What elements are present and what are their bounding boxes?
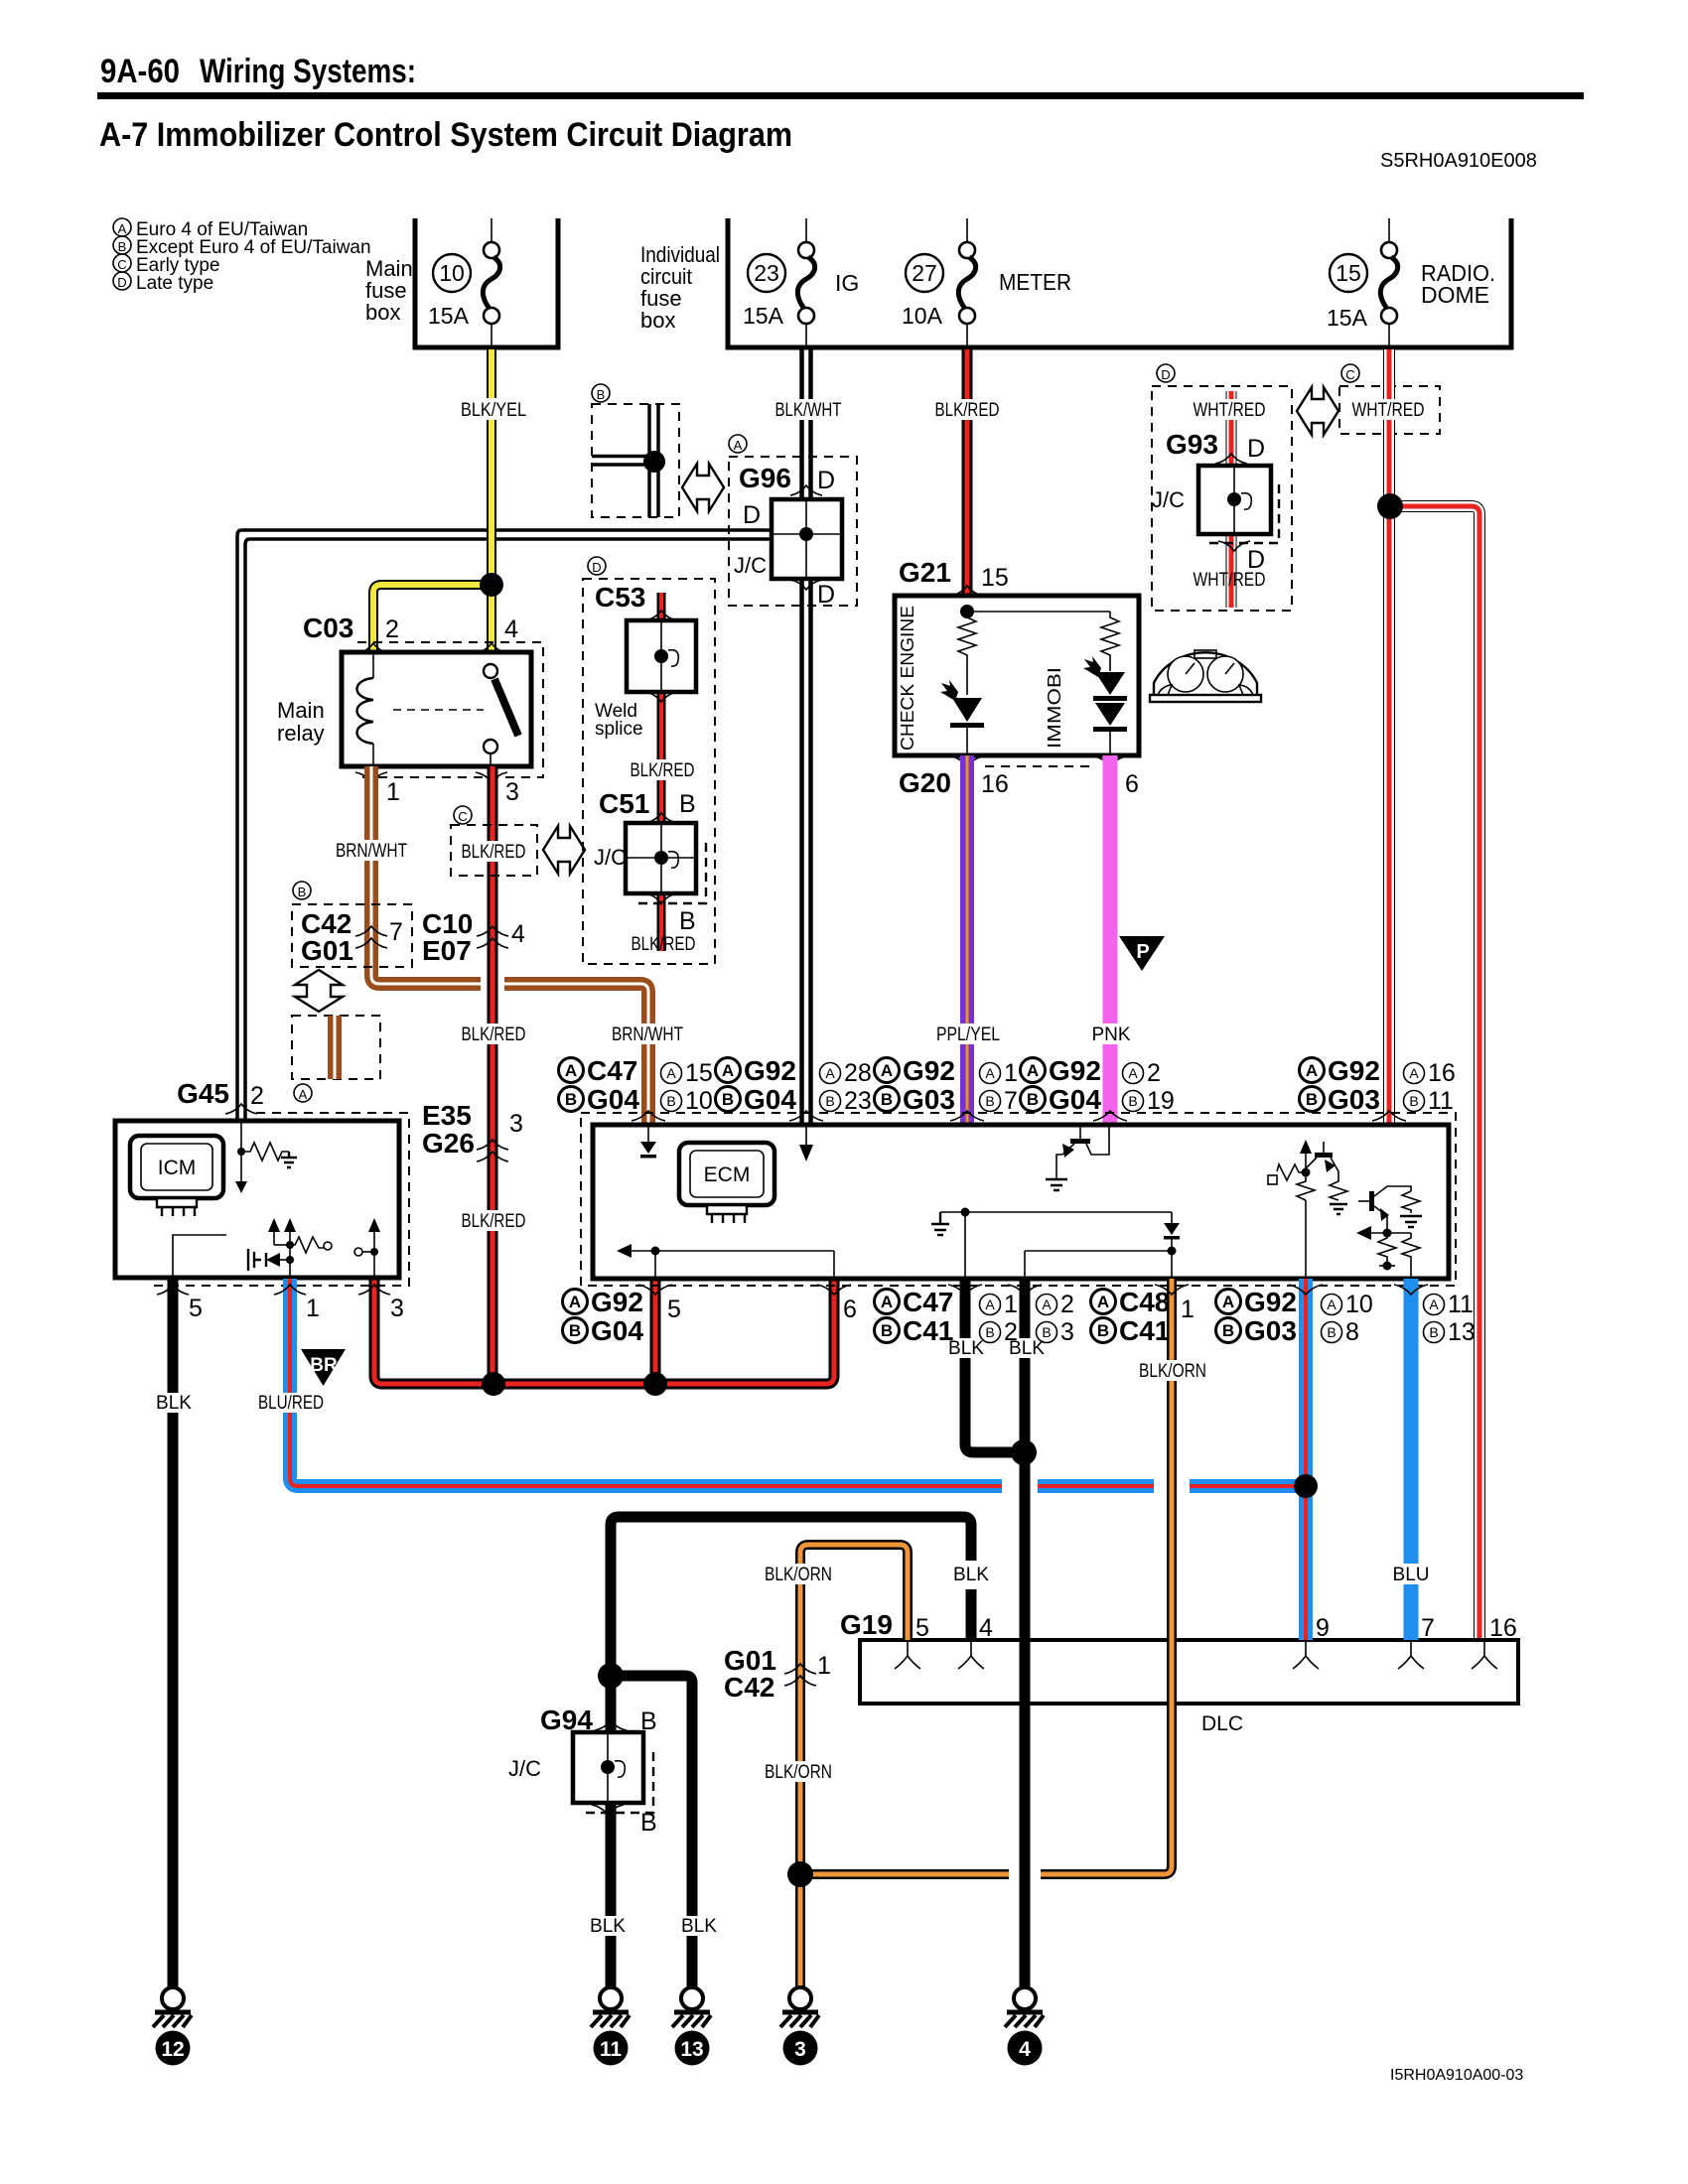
ICM pin5 internal line xyxy=(173,1235,226,1278)
svg-text:Late type: Late type xyxy=(136,273,213,294)
svg-text:B: B xyxy=(881,1090,893,1109)
svg-text:BLK: BLK xyxy=(681,1916,717,1937)
svg-text:G03: G03 xyxy=(1244,1315,1297,1346)
connector G94 upper mark xyxy=(595,1720,627,1730)
wire BLU/RED segment 3 xyxy=(1190,1479,1306,1493)
label BLK/ORN lower xyxy=(760,1761,837,1783)
wire BLK branch to ground 13 xyxy=(611,1676,692,1987)
svg-text:WHT/RED: WHT/RED xyxy=(1194,400,1266,421)
wire BLU/RED ICM pin1 to junction xyxy=(290,1279,1002,1486)
interchange arrow C at C51 xyxy=(543,826,585,874)
svg-text:G93: G93 xyxy=(1166,429,1218,460)
svg-text:B: B xyxy=(985,1093,994,1109)
svg-text:10: 10 xyxy=(439,260,465,286)
svg-text:C03: C03 xyxy=(303,613,353,643)
svg-text:2: 2 xyxy=(1060,1291,1074,1318)
svg-text:1: 1 xyxy=(1181,1296,1195,1323)
svg-text:C41: C41 xyxy=(1119,1315,1170,1346)
svg-text:16: 16 xyxy=(981,770,1009,798)
ECM transistor at PNK pin xyxy=(1046,1125,1109,1190)
label BLK/YEL xyxy=(457,398,530,421)
wire BLK ECM A2/B3 to ground 4 xyxy=(1020,1279,1031,1987)
svg-text:13: 13 xyxy=(680,2038,703,2061)
wire WHT/RED branch to DLC 16 xyxy=(1390,506,1479,1640)
junction BLK/ORN xyxy=(787,1861,813,1887)
ECM pin A2/B19 mark xyxy=(1093,1111,1127,1121)
variant D WHT/RED stub xyxy=(1226,391,1237,608)
svg-text:C51: C51 xyxy=(599,788,649,819)
svg-text:PNK: PNK xyxy=(1091,1024,1130,1045)
svg-text:11: 11 xyxy=(1428,1087,1454,1115)
svg-text:5: 5 xyxy=(667,1296,681,1323)
svg-text:G92: G92 xyxy=(1328,1055,1380,1086)
svg-text:8: 8 xyxy=(1345,1318,1359,1346)
svg-text:BLK/RED: BLK/RED xyxy=(462,842,526,863)
svg-text:3: 3 xyxy=(509,1110,523,1138)
svg-text:B: B xyxy=(1097,1321,1109,1340)
main relay box xyxy=(342,652,531,766)
svg-text:A: A xyxy=(1128,1065,1138,1081)
ECM pin 5 mark xyxy=(638,1285,672,1295)
svg-text:G04: G04 xyxy=(744,1084,796,1115)
note B circle at G96 xyxy=(592,384,610,402)
svg-text:A: A xyxy=(985,1297,995,1312)
relay pin1 mark xyxy=(355,772,387,782)
ECM pin A1/B2 connector label C47/C41 xyxy=(875,1287,1018,1346)
svg-text:relay: relay xyxy=(277,721,325,746)
svg-text:4: 4 xyxy=(511,920,525,948)
resistor check engine xyxy=(958,612,976,695)
svg-text:D: D xyxy=(117,275,126,290)
svg-text:G04: G04 xyxy=(587,1084,639,1115)
svg-text:A: A xyxy=(985,1065,995,1081)
connector C51 upper mark xyxy=(645,813,677,823)
DLC pin7 terminal xyxy=(1398,1642,1424,1669)
note D circle at G93 xyxy=(1157,364,1175,382)
ICM pin3 internal circuit xyxy=(354,1218,380,1278)
ECM ground line at pin A1/B2 xyxy=(931,1208,1172,1280)
label BLK/RED meter xyxy=(929,399,1005,421)
ECM pin A2/B3 labels xyxy=(1037,1291,1074,1346)
variant B double wire stub xyxy=(649,404,658,517)
note B circle at C42 xyxy=(293,882,311,899)
junction connector G96 J/C box xyxy=(772,499,842,579)
svg-text:IMMOBI: IMMOBI xyxy=(1045,667,1064,749)
ECM pin A2/B19 connector label G92/G04 xyxy=(1021,1055,1175,1115)
svg-text:9: 9 xyxy=(1316,1614,1330,1642)
variant A BRN/WHT stub xyxy=(328,1016,342,1079)
svg-text:C48: C48 xyxy=(1119,1287,1170,1317)
svg-text:1: 1 xyxy=(306,1295,320,1322)
svg-text:B: B xyxy=(666,1093,675,1109)
wire BLK DLC4 stub xyxy=(966,1589,977,1640)
svg-text:BLK: BLK xyxy=(948,1338,984,1359)
wire BLK ICM pin5 to ground 12 xyxy=(168,1279,179,1987)
svg-text:G04: G04 xyxy=(1049,1084,1101,1115)
fuse F27 10A METER xyxy=(902,218,1071,347)
svg-text:A: A xyxy=(1409,1065,1419,1081)
connector G96 lower mark xyxy=(790,580,822,590)
label BRN/WHT upper xyxy=(334,840,410,862)
svg-text:A: A xyxy=(825,1065,835,1081)
svg-text:A: A xyxy=(565,1061,577,1080)
svg-text:BRN/WHT: BRN/WHT xyxy=(336,841,407,862)
ECM transistor 1 at pin A10/B8 xyxy=(1268,1140,1347,1279)
ICM dashed outline xyxy=(151,1113,409,1286)
legend note D xyxy=(113,272,213,294)
svg-text:A: A xyxy=(1042,1297,1052,1312)
svg-text:G21: G21 xyxy=(899,557,951,588)
svg-text:B: B xyxy=(640,1809,657,1837)
wire BLK/RED bus ICM pin3 to ECM pin6 xyxy=(374,1279,834,1384)
svg-text:16: 16 xyxy=(1428,1059,1456,1087)
svg-text:28: 28 xyxy=(844,1059,872,1087)
ECM pin A16/B11 mark xyxy=(1372,1111,1406,1121)
svg-text:C41: C41 xyxy=(903,1315,953,1346)
svg-text:7: 7 xyxy=(1421,1614,1435,1642)
svg-text:B: B xyxy=(597,387,606,402)
svg-text:G03: G03 xyxy=(1328,1084,1380,1115)
ECM pin A28/B23 mark xyxy=(789,1111,823,1121)
ICM pin2 internal resistor to ground xyxy=(235,1121,297,1193)
svg-text:BLK: BLK xyxy=(590,1916,626,1937)
svg-text:BLK/ORN: BLK/ORN xyxy=(765,1565,832,1585)
ICM pin3 mark xyxy=(358,1285,390,1295)
svg-text:15A: 15A xyxy=(428,303,470,329)
svg-text:D: D xyxy=(1247,435,1265,463)
legend note C xyxy=(113,254,219,276)
wire BLK/YEL fuse10 to relay pin4 xyxy=(487,349,496,652)
svg-text:J/C: J/C xyxy=(734,553,767,578)
note C circle at WHT/RED xyxy=(1341,364,1359,382)
svg-text:Main: Main xyxy=(277,698,325,723)
svg-text:IG: IG xyxy=(835,270,859,296)
relay pin3 mark xyxy=(476,772,507,782)
label BLK pin A2/B3 xyxy=(1008,1338,1046,1359)
svg-text:splice: splice xyxy=(595,719,643,740)
svg-text:D: D xyxy=(1161,367,1170,382)
connector E35/G26 marks xyxy=(477,1140,508,1161)
note A circle at G96 xyxy=(729,435,747,453)
svg-text:4: 4 xyxy=(979,1614,993,1642)
svg-text:10: 10 xyxy=(685,1087,713,1115)
svg-text:23: 23 xyxy=(754,260,779,286)
svg-text:ECM: ECM xyxy=(704,1163,751,1186)
svg-text:C: C xyxy=(458,809,467,824)
ECM pin 1 connector label C48/C41 xyxy=(1091,1287,1195,1346)
combination meter box xyxy=(895,596,1139,755)
DLC pin16 terminal xyxy=(1472,1642,1497,1669)
svg-text:12: 12 xyxy=(161,2038,184,2061)
svg-text:11: 11 xyxy=(600,2038,623,2061)
ICM pin1 mark xyxy=(274,1285,306,1295)
svg-text:3: 3 xyxy=(390,1295,404,1322)
svg-text:A: A xyxy=(722,1061,734,1080)
ECM dashed outline xyxy=(581,1113,1456,1286)
ECM pin A1/B2 mark xyxy=(948,1285,982,1295)
svg-text:9A-60: 9A-60 xyxy=(100,53,180,90)
ICM pin1 internal circuit xyxy=(248,1218,332,1278)
connector C53 mark xyxy=(645,611,677,620)
svg-text:G96: G96 xyxy=(739,463,791,493)
interchange arrow at G96 xyxy=(682,464,724,511)
wire BLK/RED weld splice stub xyxy=(657,593,666,951)
ground 13 xyxy=(672,1987,711,2066)
svg-text:B: B xyxy=(1042,1324,1051,1340)
label BRN/WHT lower xyxy=(610,1024,686,1045)
svg-text:S5RH0A910E008: S5RH0A910E008 xyxy=(1380,150,1537,172)
svg-text:23: 23 xyxy=(844,1087,872,1115)
label BLK ground13 xyxy=(680,1916,718,1937)
svg-text:DLC: DLC xyxy=(1201,1712,1243,1735)
ECM pin A16/B11 connector label G92/G03 xyxy=(1300,1055,1456,1115)
ECM diode at pin A15/B10 xyxy=(640,1125,656,1159)
ECM pin A15/B10 connector label C47/G04 xyxy=(559,1055,713,1115)
ECM diode at pin BLK/ORN xyxy=(1025,1212,1180,1279)
DLC pin9 terminal xyxy=(1293,1642,1319,1669)
svg-text:16: 16 xyxy=(1489,1614,1517,1642)
ICM icon xyxy=(130,1136,223,1216)
ground 11 xyxy=(591,1987,630,2066)
wire BLU/RED segment 2 xyxy=(1038,1479,1154,1493)
svg-text:1: 1 xyxy=(817,1652,831,1680)
svg-text:3: 3 xyxy=(794,2038,806,2061)
resistor immobi xyxy=(1101,612,1119,671)
wire WHT/RED fuse15 to ECM A16/B11 xyxy=(1383,349,1395,1125)
ECM pin A1/B7 mark xyxy=(950,1111,984,1121)
svg-text:B: B xyxy=(679,907,696,935)
junction BLK/RED bus at ECM pin5 xyxy=(643,1372,667,1396)
label PNK xyxy=(1089,1024,1133,1045)
svg-text:C47: C47 xyxy=(587,1055,637,1086)
connector C51 lower mark xyxy=(645,893,677,903)
svg-text:BLK/RED: BLK/RED xyxy=(631,760,695,781)
svg-text:D: D xyxy=(817,467,835,494)
variant C BLK/RED dashed box xyxy=(451,825,537,876)
variant A dashed box xyxy=(292,1016,380,1079)
svg-text:A: A xyxy=(118,221,127,236)
svg-text:G04: G04 xyxy=(591,1315,643,1346)
svg-text:5: 5 xyxy=(189,1295,203,1322)
svg-text:15A: 15A xyxy=(743,303,784,329)
wire BLU ECM A11/B13 to DLC 7 xyxy=(1404,1279,1419,1640)
variant C dashed box WHT/RED xyxy=(1339,386,1440,434)
ECM icon xyxy=(679,1143,774,1223)
svg-text:BRN/WHT: BRN/WHT xyxy=(612,1024,683,1045)
main fuse box xyxy=(415,218,558,347)
label BLK ground11 xyxy=(589,1916,627,1937)
svg-text:BLU/RED: BLU/RED xyxy=(258,1393,324,1414)
svg-text:G19: G19 xyxy=(840,1609,893,1640)
junction connector C51 J/C box xyxy=(626,823,706,903)
DLC box xyxy=(860,1640,1518,1704)
note A circle below xyxy=(294,1084,312,1102)
connector C42/G01 marks xyxy=(355,926,387,948)
header rule xyxy=(97,92,1584,99)
svg-text:G92: G92 xyxy=(1244,1287,1297,1317)
wire BLK/ORN ECM pin1 to junction xyxy=(1041,1279,1172,1874)
connector G93 upper mark xyxy=(1215,454,1247,464)
ECM box xyxy=(593,1125,1449,1279)
svg-text:6: 6 xyxy=(1125,770,1139,798)
svg-text:BLK/ORN: BLK/ORN xyxy=(1139,1361,1206,1382)
wire BRN/WHT relay pin1 down xyxy=(371,766,481,984)
ECM pin 1 mark xyxy=(1155,1285,1189,1295)
label BLK/ORN upper xyxy=(760,1564,837,1585)
svg-text:BLK/YEL: BLK/YEL xyxy=(461,400,526,421)
svg-text:A: A xyxy=(1306,1061,1318,1080)
connector C10/E07 marks xyxy=(477,926,508,948)
junction WHT/RED xyxy=(1377,493,1403,519)
svg-text:A: A xyxy=(299,1087,308,1102)
wire BLK bridge to grounds xyxy=(611,1517,971,1987)
fuse F15 15A RADIO DOME xyxy=(1327,218,1495,347)
wire BLK/ORN G19-5 to ground 3 xyxy=(800,1545,908,1987)
main relay dashed outline xyxy=(357,642,543,777)
label BLK/RED between C53 C51 xyxy=(625,759,700,781)
svg-text:A: A xyxy=(881,1061,893,1080)
variant A dashed box G96 xyxy=(729,457,857,606)
svg-text:G92: G92 xyxy=(903,1055,955,1086)
svg-text:C47: C47 xyxy=(903,1287,953,1317)
label WHT/RED variant C xyxy=(1348,399,1428,421)
svg-text:15: 15 xyxy=(685,1059,713,1087)
svg-text:WHT/RED: WHT/RED xyxy=(1194,570,1266,591)
wire BLK ECM A1/B2 elbow xyxy=(965,1279,1024,1452)
note C circle xyxy=(454,806,472,824)
label WHT/RED G93 top xyxy=(1190,399,1269,421)
LED check engine xyxy=(940,680,984,755)
svg-text:BLK/WHT: BLK/WHT xyxy=(775,400,842,421)
BR marker triangle xyxy=(301,1349,346,1386)
connector G94 lower mark xyxy=(592,1805,624,1815)
svg-text:G01: G01 xyxy=(301,935,353,966)
label PPL/YEL xyxy=(931,1024,1005,1045)
svg-text:BLK/RED: BLK/RED xyxy=(935,400,1000,421)
svg-text:Wiring Systems:: Wiring Systems: xyxy=(200,53,416,90)
wire BRN/WHT to ECM pin A15/B10 xyxy=(504,984,648,1125)
label BLU xyxy=(1388,1564,1434,1585)
connector G20 dashed link xyxy=(985,765,1092,767)
variant B branch wires xyxy=(592,457,654,466)
svg-text:D: D xyxy=(743,501,761,529)
ECM pin A10/B8 connector label G92/G03 xyxy=(1216,1287,1373,1346)
ECM pin A11/B13 labels xyxy=(1424,1291,1476,1346)
svg-text:7: 7 xyxy=(389,918,403,946)
svg-text:G92: G92 xyxy=(591,1287,643,1317)
legend note B xyxy=(113,236,371,258)
relay coil xyxy=(357,652,374,766)
ICM box xyxy=(115,1121,399,1278)
svg-text:WHT/RED: WHT/RED xyxy=(1352,400,1425,421)
wire BLK/ORN segment 2 xyxy=(800,1869,1009,1879)
label BLK pin A1/B2 xyxy=(947,1338,985,1359)
svg-text:BLK/RED: BLK/RED xyxy=(462,1024,526,1045)
ECM pin A28/B23 connector label G92/G04 xyxy=(716,1055,872,1115)
svg-text:A-7 Immobilizer Control System: A-7 Immobilizer Control System Circuit D… xyxy=(99,116,792,154)
svg-text:G20: G20 xyxy=(899,767,951,798)
ECM arrow at pin A28/B23 xyxy=(799,1125,813,1161)
instrument cluster icon xyxy=(1150,650,1261,702)
wire BLK/RED fuse27 to meter G21-15 xyxy=(962,349,973,596)
svg-text:B: B xyxy=(985,1324,994,1340)
label BLU/RED ICM1 xyxy=(252,1393,330,1414)
variant D dashed box around C53/C51 xyxy=(583,579,715,964)
svg-text:B: B xyxy=(569,1321,581,1340)
svg-text:2: 2 xyxy=(385,615,399,643)
svg-text:BLU: BLU xyxy=(1393,1565,1430,1585)
ECM pin A1/B7 connector label G92/G03 xyxy=(875,1055,1018,1115)
connector C42/G01 dashed box xyxy=(292,904,412,967)
junction BLK/YEL xyxy=(480,573,503,597)
svg-text:BLK: BLK xyxy=(156,1393,192,1414)
svg-text:7: 7 xyxy=(1004,1087,1018,1115)
wire BLK/YEL branch to relay pin2 xyxy=(373,585,492,652)
svg-text:27: 27 xyxy=(912,260,937,286)
svg-text:10A: 10A xyxy=(902,303,943,329)
weld splice C53 box xyxy=(627,620,696,692)
ground 3 xyxy=(780,1987,819,2066)
svg-text:6: 6 xyxy=(843,1296,857,1323)
DLC pin4 terminal xyxy=(958,1642,984,1669)
svg-text:B: B xyxy=(298,885,307,899)
svg-text:19: 19 xyxy=(1147,1087,1175,1115)
relay switch xyxy=(484,664,518,766)
svg-text:J/C: J/C xyxy=(508,1756,541,1781)
connector C53 lower mark xyxy=(645,692,677,702)
ECM pin A2/B3 mark xyxy=(1008,1285,1042,1295)
LED immobi double xyxy=(1083,656,1127,755)
connector G93 lower mark xyxy=(1218,541,1250,551)
svg-text:E35: E35 xyxy=(422,1100,472,1131)
svg-text:2: 2 xyxy=(1004,1318,1018,1346)
svg-text:5: 5 xyxy=(915,1614,929,1642)
fuse F23 15A IG xyxy=(743,218,859,347)
meter internal junction xyxy=(960,605,974,618)
svg-text:15: 15 xyxy=(981,564,1009,592)
svg-text:I5RH0A910A00-03: I5RH0A910A00-03 xyxy=(1390,2067,1523,2084)
connector G96 upper mark xyxy=(790,485,822,495)
wire PPL/YEL G20-16 to ECM A1/B7 xyxy=(960,755,974,1125)
svg-text:CHECK ENGINE: CHECK ENGINE xyxy=(898,606,917,751)
svg-text:BLK: BLK xyxy=(953,1565,989,1585)
svg-text:1: 1 xyxy=(386,778,400,806)
svg-text:B: B xyxy=(1327,1324,1336,1340)
svg-text:B: B xyxy=(679,790,696,818)
svg-text:BLK/RED: BLK/RED xyxy=(462,1211,526,1232)
ground 4 xyxy=(1005,1987,1044,2066)
ECM arrow line pins 5-6 xyxy=(617,1244,834,1279)
label BLK/ORN at ECM xyxy=(1134,1360,1211,1382)
variant D dashed box G93 xyxy=(1152,386,1292,611)
svg-text:B: B xyxy=(565,1090,577,1109)
svg-text:13: 13 xyxy=(1448,1318,1476,1346)
svg-text:A: A xyxy=(666,1065,676,1081)
ECM pin A10/B8 mark xyxy=(1289,1285,1323,1295)
svg-text:BLK/ORN: BLK/ORN xyxy=(765,1762,832,1783)
svg-text:A: A xyxy=(881,1293,893,1311)
svg-text:C: C xyxy=(117,257,126,272)
junction connector G93 J/C box xyxy=(1198,466,1279,543)
svg-text:B: B xyxy=(1306,1090,1318,1109)
svg-text:B: B xyxy=(118,239,127,254)
connector C03 pin4 mark xyxy=(476,643,507,653)
connector C03 pin2 mark xyxy=(357,643,389,653)
svg-text:A: A xyxy=(1429,1297,1439,1312)
svg-text:ICM: ICM xyxy=(158,1157,197,1179)
svg-text:PPL/YEL: PPL/YEL xyxy=(936,1024,1000,1045)
svg-text:11: 11 xyxy=(1448,1291,1474,1318)
